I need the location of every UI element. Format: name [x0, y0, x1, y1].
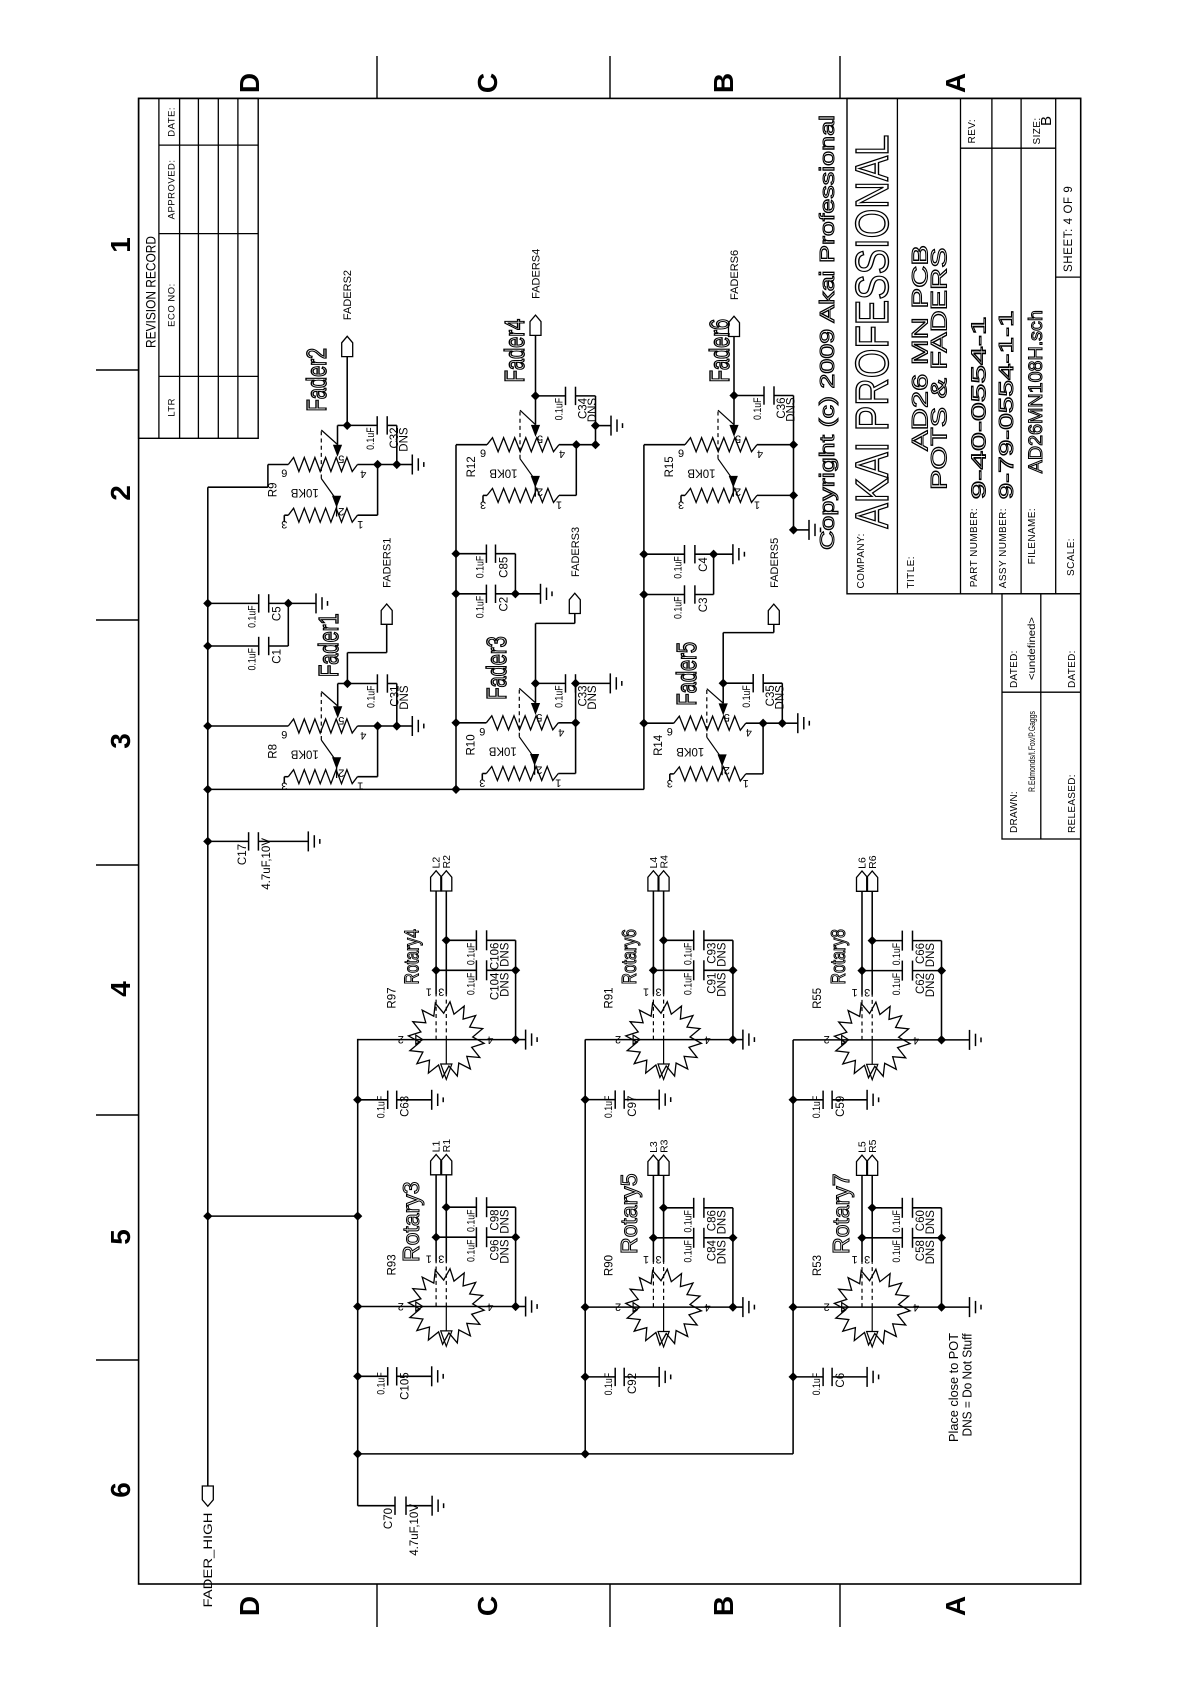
svg-text:3: 3 [281, 518, 287, 530]
capacitor C96 (pin1) [432, 1233, 441, 1242]
pot R90 pin3 wire [663, 1175, 665, 1262]
ground Fader2 [397, 464, 413, 466]
capacitor C86 (pin3) [659, 1203, 668, 1212]
capacitor C104 (pin1) [432, 966, 441, 975]
svg-text:R9: R9 [267, 482, 279, 497]
svg-text:FADERS4: FADERS4 [531, 249, 543, 299]
svg-text:5: 5 [338, 714, 344, 726]
node rotary feed B mid [581, 1449, 590, 1458]
wire fader row 3 bus [643, 445, 645, 790]
port R6 [867, 871, 878, 891]
pot R97 pin1 wire [435, 891, 437, 995]
svg-text:2: 2 [724, 764, 730, 776]
capacitor C33 [536, 682, 566, 684]
svg-text:0.1uF: 0.1uF [365, 685, 377, 708]
title block [846, 98, 1081, 839]
svg-text:4: 4 [360, 468, 366, 480]
svg-text:5: 5 [338, 453, 344, 465]
svg-text:C17: C17 [237, 844, 249, 865]
pot R15 gang A resistor [685, 438, 757, 452]
svg-text:1: 1 [426, 1253, 432, 1265]
svg-text:4: 4 [360, 729, 366, 741]
svg-text:DNS: DNS [717, 1210, 729, 1235]
svg-text:C: C [472, 1596, 503, 1616]
capacitor C32 [347, 424, 377, 426]
capacitor C63 0.1uF (bus) [353, 1095, 362, 1104]
svg-text:3: 3 [678, 498, 684, 510]
node ground rail [591, 440, 600, 449]
svg-text:R4: R4 [658, 855, 670, 869]
svg-text:3: 3 [438, 986, 444, 998]
svg-text:0.1uF: 0.1uF [683, 972, 695, 995]
svg-text:APPROVED:: APPROVED: [167, 159, 178, 219]
node fader5 pin6 [639, 719, 648, 728]
pot R91 pin3 wire [663, 891, 665, 995]
svg-text:Fader2: Fader2 [302, 348, 333, 412]
node ground rail [392, 721, 401, 730]
wire pin4 down [559, 444, 596, 446]
wire pin1 rail [746, 773, 763, 775]
node rail capA [728, 1233, 737, 1242]
svg-text:10KB: 10KB [489, 466, 517, 478]
pot R14 pin3 stub [670, 773, 674, 775]
pot R8 pin3 stub [284, 776, 288, 778]
pot R91 pin1 wire [652, 891, 654, 995]
ground C6 [866, 1367, 868, 1387]
pot R55 pin1 wire [861, 891, 863, 995]
svg-text:R6: R6 [867, 855, 879, 869]
svg-text:0.1uF: 0.1uF [365, 427, 377, 450]
svg-text:DNS: DNS [925, 1240, 937, 1265]
svg-text:C63: C63 [400, 1096, 412, 1117]
wire feed to fader rows 2-3 [208, 788, 644, 790]
capacitor C70 4.7uF [358, 1505, 395, 1507]
capacitor C91 (pin1) [649, 966, 658, 975]
pot R90 pin2/pin4 line [585, 1306, 733, 1308]
svg-text:A: A [940, 1596, 971, 1616]
wire pin1 rail [358, 514, 378, 516]
svg-text:2: 2 [615, 1300, 621, 1312]
svg-text:3: 3 [480, 498, 486, 510]
svg-text:5: 5 [735, 433, 741, 445]
svg-text:C: C [472, 73, 503, 93]
node pin1 rail [572, 440, 581, 449]
zone row ticks left [376, 1584, 378, 1627]
wire fader4 pin6 riser [456, 444, 487, 446]
pot R8 gang A resistor [288, 719, 357, 733]
port R1 [441, 1155, 452, 1175]
pot R55 wiper arrow pin3 [871, 1040, 873, 1064]
svg-text:1: 1 [852, 986, 858, 998]
svg-text:4: 4 [487, 1301, 493, 1313]
wire wiper to junction [338, 424, 348, 426]
node rail pin4 [937, 1035, 946, 1044]
svg-text:1: 1 [754, 498, 760, 510]
wire pin1 rail [558, 773, 575, 775]
svg-text:R91: R91 [604, 987, 616, 1008]
svg-text:DNS: DNS [587, 685, 599, 710]
pot R97 pin3 wire [445, 891, 447, 995]
svg-text:0.1uF: 0.1uF [603, 1373, 615, 1396]
svg-text:4: 4 [746, 726, 752, 738]
wire ground rail [781, 683, 783, 723]
ground Fader3 [576, 682, 611, 684]
svg-text:C97: C97 [627, 1096, 639, 1117]
capacitor C66 (pin3) [868, 936, 877, 945]
svg-text:5: 5 [537, 433, 543, 445]
svg-text:C2: C2 [499, 597, 511, 612]
capacitor C106 (pin3) [442, 936, 451, 945]
svg-text:9-40-0554-1: 9-40-0554-1 [969, 316, 991, 499]
wire Fader6 port [733, 337, 735, 396]
svg-text:COMPANY:: COMPANY: [856, 533, 867, 588]
node rail pin4 [511, 1035, 520, 1044]
node rotary feed B top [353, 1449, 362, 1458]
svg-text:DNS: DNS [717, 942, 729, 967]
svg-text:0.1uF: 0.1uF [752, 397, 764, 420]
svg-text:Rotary7: Rotary7 [828, 1173, 854, 1254]
svg-text:DNS: DNS [499, 942, 511, 967]
pot R93 pin3 wire [445, 1175, 447, 1262]
svg-text:Rotary8: Rotary8 [827, 929, 849, 984]
svg-text:Fader4: Fader4 [500, 319, 531, 383]
wire wiper to junction [535, 682, 537, 684]
svg-text:DNS: DNS [775, 685, 787, 710]
pot R93 wiper arrow pin2 [416, 1302, 423, 1311]
pot R15 wiper linkage [717, 410, 719, 459]
node rotary feed A top [203, 1212, 212, 1221]
node rail capA [511, 966, 520, 975]
svg-text:Rotary6: Rotary6 [618, 929, 640, 984]
svg-text:9-79-0554-1-1: 9-79-0554-1-1 [996, 310, 1018, 499]
ground C92 [658, 1367, 660, 1387]
ground C17 [307, 831, 309, 851]
pot R10 gang A resistor [486, 716, 558, 730]
pot R53 pin2/pin4 line [793, 1306, 941, 1308]
svg-text:0.1uF: 0.1uF [811, 1095, 823, 1118]
wire ground rail [396, 425, 398, 464]
port FADERS1 [381, 604, 392, 624]
svg-text:REVISION RECORD: REVISION RECORD [143, 236, 158, 348]
svg-text:0.1uF: 0.1uF [811, 1373, 823, 1396]
svg-text:10KB: 10KB [290, 748, 318, 760]
svg-text:ASSY NUMBER:: ASSY NUMBER: [998, 508, 1009, 588]
svg-text:2: 2 [824, 1033, 830, 1045]
svg-text:0.1uF: 0.1uF [465, 1239, 477, 1262]
node ground rail [392, 460, 401, 469]
wire Fader1 port [346, 653, 348, 684]
svg-text:2: 2 [338, 505, 344, 517]
node rail pin4 [728, 1035, 737, 1044]
svg-text:5: 5 [105, 1229, 136, 1245]
node rail pin4 [511, 1302, 520, 1311]
node Fader2 wiper junction [343, 421, 352, 430]
wire rotary ground rail [515, 1207, 517, 1306]
svg-text:6: 6 [667, 725, 673, 737]
pot R53 pin3 wire [871, 1175, 873, 1262]
svg-text:4: 4 [705, 1034, 711, 1046]
svg-text:DNS = Do Not Stuff: DNS = Do Not Stuff [961, 1333, 975, 1436]
svg-text:3: 3 [479, 777, 485, 789]
wire fader row 2 bus [455, 445, 457, 790]
svg-text:ECO NO:: ECO NO: [167, 283, 178, 327]
svg-text:FADERS6: FADERS6 [729, 250, 741, 300]
svg-text:DNS: DNS [399, 685, 411, 710]
ground Rotary5 [733, 1306, 743, 1308]
svg-text:2: 2 [338, 767, 344, 779]
port FADER_HIGH [202, 1486, 213, 1506]
wire pin1 rail [559, 494, 576, 496]
capacitor C4 0.1uF [639, 550, 648, 559]
node rotary3 pin2 [353, 1302, 362, 1311]
wire wiper to junction [535, 396, 537, 425]
pot R91 pin2/pin4 line [585, 1039, 733, 1041]
wire pin1 drop [757, 494, 794, 496]
capacitor C34 [536, 395, 566, 397]
node rail capA [511, 1233, 520, 1242]
node pin1 rail [373, 460, 382, 469]
svg-text:R55: R55 [812, 988, 824, 1009]
svg-text:6: 6 [480, 447, 486, 459]
svg-text:R90: R90 [604, 1255, 616, 1276]
pot R14 gang A resistor [674, 716, 746, 730]
node pin1 rail [759, 719, 768, 728]
pot R90 wiper arrow pin3 [663, 1307, 665, 1331]
svg-text:C6: C6 [835, 1373, 847, 1388]
ground C105 [431, 1366, 433, 1386]
svg-text:DNS: DNS [499, 972, 511, 997]
capacitor C85 0.1uF [451, 549, 460, 558]
node pin1 rail [789, 491, 798, 500]
svg-text:R3: R3 [658, 1139, 670, 1153]
svg-text:R12: R12 [466, 456, 478, 477]
node rotary7 pin2 [789, 1303, 798, 1312]
svg-text:POTS & FADERS: POTS & FADERS [927, 248, 952, 491]
pot R91 wiper arrow pin3 [663, 1040, 665, 1064]
svg-text:6: 6 [281, 467, 287, 479]
pot R9 wiper linkage [320, 430, 322, 479]
svg-text:3: 3 [105, 733, 136, 749]
svg-text:R93: R93 [386, 1254, 398, 1275]
svg-text:4: 4 [105, 981, 136, 997]
port FADERS2 [342, 336, 353, 356]
capacitor C97 0.1uF (bus) [581, 1095, 590, 1104]
wire rotary row B bus [584, 1040, 586, 1454]
svg-text:DATED:: DATED: [1067, 650, 1078, 688]
svg-text:6: 6 [281, 728, 287, 740]
svg-text:R8: R8 [267, 744, 279, 759]
node ground rail [778, 719, 787, 728]
svg-text:1: 1 [643, 986, 649, 998]
pot R10 gang B resistor [486, 767, 558, 781]
svg-text:0.1uF: 0.1uF [741, 685, 753, 708]
svg-text:2: 2 [824, 1300, 830, 1312]
pot R12 wiper linkage [519, 410, 521, 459]
capacitor C36 [734, 395, 764, 397]
svg-text:2: 2 [537, 485, 543, 497]
svg-text:R14: R14 [653, 734, 665, 756]
svg-text:PART NUMBER:: PART NUMBER: [969, 508, 980, 587]
port L2 [431, 871, 442, 891]
svg-text:10KB: 10KB [687, 466, 715, 478]
svg-text:R1: R1 [441, 1139, 453, 1153]
pot R53 wiper arrow pin2 [842, 1303, 849, 1312]
svg-text:FADERS1: FADERS1 [382, 538, 394, 588]
ground Fader5 [782, 722, 798, 724]
wire Fader5 port [722, 633, 724, 684]
node fader3 pin6 [451, 718, 460, 727]
port FADERS3 [569, 593, 580, 613]
svg-text:0.1uF: 0.1uF [673, 596, 685, 619]
wire fader5 pin6 riser [644, 722, 674, 724]
svg-text:1: 1 [426, 986, 432, 998]
svg-text:3: 3 [656, 1253, 662, 1265]
capacitor C58 (pin1) [857, 1233, 866, 1242]
svg-text:DNS: DNS [925, 1210, 937, 1235]
drawn/dated sub-block [1002, 594, 1081, 839]
svg-text:6: 6 [479, 725, 485, 737]
svg-text:0.1uF: 0.1uF [603, 1095, 615, 1118]
svg-text:6: 6 [105, 1482, 136, 1498]
capacitor C3 0.1uF [639, 590, 648, 599]
svg-text:SCALE:: SCALE: [1066, 538, 1077, 576]
svg-text:0.1uF: 0.1uF [891, 973, 903, 996]
svg-text:DRAWN:: DRAWN: [1009, 791, 1020, 833]
svg-text:5: 5 [536, 711, 542, 723]
port L4 [648, 871, 659, 891]
svg-text:0.1uF: 0.1uF [554, 398, 566, 421]
svg-text:R2: R2 [441, 855, 453, 869]
svg-text:0.1uF: 0.1uF [891, 943, 903, 966]
svg-text:0.1uF: 0.1uF [465, 1209, 477, 1232]
capacitor C17 4.7uF [203, 837, 212, 846]
svg-text:C85: C85 [499, 557, 511, 578]
svg-text:0.1uF: 0.1uF [474, 555, 486, 578]
svg-text:10KB: 10KB [676, 745, 704, 757]
svg-text:4: 4 [558, 726, 564, 738]
svg-text:0.1uF: 0.1uF [465, 942, 477, 965]
wire fader2 pin6 drop [208, 486, 268, 488]
svg-text:DATED:: DATED: [1009, 650, 1020, 688]
svg-text:5: 5 [724, 711, 730, 723]
svg-text:0.1uF: 0.1uF [554, 685, 566, 708]
wire pin4 down [746, 722, 783, 724]
node cap pair [284, 599, 293, 608]
port R4 [658, 871, 669, 891]
node rail pin4 [728, 1303, 737, 1312]
port L3 [648, 1155, 659, 1175]
port R3 [658, 1155, 669, 1175]
svg-text:R15: R15 [664, 456, 676, 477]
svg-text:TITLE:: TITLE: [906, 556, 917, 588]
wire cap pair rail [713, 554, 715, 594]
pot R12 pin3 stub [483, 494, 487, 496]
svg-text:3: 3 [864, 1253, 870, 1265]
pot R12 gang A resistor [487, 438, 559, 452]
svg-text:Fader1: Fader1 [314, 613, 345, 677]
capacitor C105 0.1uF (bus) [353, 1372, 362, 1381]
svg-text:0.1uF: 0.1uF [683, 1240, 695, 1263]
ground C70 [431, 1496, 433, 1516]
svg-text:10KB: 10KB [290, 486, 318, 498]
sheet cell divider [1056, 276, 1081, 278]
capacitor C31 [347, 683, 377, 685]
pot R93 pin2/pin4 line [358, 1306, 516, 1308]
svg-text:0.1uF: 0.1uF [247, 605, 259, 628]
capacitor C2 0.1uF [451, 589, 460, 598]
svg-text:Fader3: Fader3 [482, 636, 513, 700]
wire rotary ground rail [515, 940, 517, 1039]
svg-text:C4: C4 [698, 557, 710, 572]
pot R15 gang B resistor [685, 488, 757, 502]
capacitor C93 (pin3) [659, 936, 668, 945]
node feed row2 [451, 785, 460, 794]
ground C85 C2 [515, 593, 540, 595]
port L5 [857, 1155, 868, 1175]
svg-text:Rotary4: Rotary4 [401, 929, 423, 984]
port R5 [867, 1155, 878, 1175]
svg-text:DNS: DNS [499, 1239, 511, 1264]
pot R9 pin3 stub [284, 514, 288, 516]
svg-text:C105: C105 [400, 1372, 412, 1400]
ground C4 C3 [714, 553, 733, 555]
zone row ticks right [376, 56, 378, 98]
svg-text:A: A [940, 73, 971, 93]
node cap return [571, 679, 580, 688]
svg-text:1: 1 [357, 518, 363, 530]
pot R97 wiper arrow pin2 [416, 1035, 423, 1044]
wire fader1 pin6 riser [208, 725, 288, 727]
wire rotary row C bus [792, 1040, 794, 1454]
svg-text:2: 2 [615, 1033, 621, 1045]
wire rotary ground rail [941, 941, 943, 1040]
wire Fader2 port [346, 357, 348, 426]
svg-text:FADERS2: FADERS2 [342, 270, 354, 320]
svg-text:FADERS5: FADERS5 [769, 538, 781, 588]
svg-text:1: 1 [555, 777, 561, 789]
svg-text:3: 3 [864, 986, 870, 998]
wire ground rail [396, 684, 398, 727]
svg-text:Fader5: Fader5 [672, 642, 703, 706]
node rail pin4 [937, 1303, 946, 1312]
svg-text:4.7uF,10V: 4.7uF,10V [261, 838, 273, 890]
wire wiper to junction [338, 683, 348, 685]
capacitor C98 (pin3) [442, 1203, 451, 1212]
wire pin4 down [358, 464, 397, 466]
port FADERS6 [729, 316, 740, 336]
svg-text:DNS: DNS [399, 427, 411, 452]
ground Rotary7 [942, 1306, 970, 1308]
svg-text:FILENAME:: FILENAME: [1027, 508, 1038, 564]
svg-text:REV:: REV: [967, 119, 978, 144]
pot R55 pin3 wire [871, 891, 873, 995]
port FADERS5 [768, 604, 779, 624]
svg-text:C1: C1 [272, 649, 284, 664]
capacitor C92 0.1uF (bus) [581, 1372, 590, 1381]
wire pin4 down [757, 444, 794, 446]
node fader1 pin6 [203, 721, 212, 730]
svg-text:2: 2 [735, 485, 741, 497]
pot R9 gang A resistor [288, 458, 357, 472]
capacitor C1 0.1uF [203, 641, 212, 650]
capacitor C62 (pin1) [857, 966, 866, 975]
pot R14 wiper linkage [706, 689, 708, 738]
pot R93 pin1 wire [435, 1175, 437, 1262]
svg-text:3: 3 [281, 780, 287, 792]
wire cap pair rail [287, 603, 289, 646]
pot R14 gang B resistor [674, 767, 746, 781]
wire fader6 pin6 riser [644, 444, 685, 446]
